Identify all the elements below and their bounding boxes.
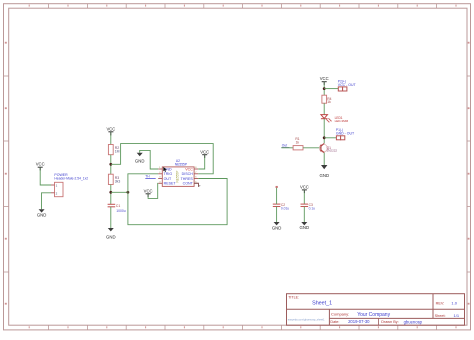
svg-text:VCC: VCC — [144, 188, 153, 193]
wire VCC to header pin 1 — [40, 167, 51, 185]
wire U2 GND pin to ground — [140, 150, 159, 169]
wire R4 to LED1 — [323, 103, 325, 114]
wire junction C to TRIG pin 2 — [128, 174, 158, 193]
power flag VCC (RESET) — [144, 188, 153, 193]
net label TH — [145, 175, 155, 179]
title block REV cell — [436, 300, 458, 305]
svg-text:Out: Out — [282, 144, 287, 148]
power flag VCC (C3) — [300, 185, 309, 190]
power flag VCC (555 timing chain) — [106, 127, 115, 132]
svg-text:VCC: VCC — [106, 127, 115, 132]
CONT pin 5 stub — [194, 183, 201, 187]
connector P2(+) VCC - OUT — [338, 80, 357, 92]
capacitor C2 0.01u — [273, 186, 290, 210]
node VCC/P2 junction — [323, 87, 326, 90]
svg-text:Header-Male-2.54_1x2: Header-Male-2.54_1x2 — [54, 176, 88, 180]
svg-text:gbuenosp: gbuenosp — [404, 319, 423, 324]
svg-text:VCC - OUT: VCC - OUT — [338, 83, 357, 87]
power flag stems dark tips — [40, 82, 324, 197]
wire VCC to R2 — [110, 132, 112, 145]
title block Date / Drawn By cell — [330, 319, 422, 324]
ground symbol (C3) — [300, 222, 310, 230]
wire VCC to junction — [323, 82, 325, 96]
svg-text:0.1u: 0.1u — [309, 207, 316, 211]
resistor R3 3k3 — [108, 174, 120, 184]
wire header pin 2 to GND — [42, 193, 52, 209]
svg-text:NE555P: NE555P — [175, 162, 188, 166]
svg-text:Sheet_1: Sheet_1 — [312, 300, 332, 306]
svg-text:GND: GND — [272, 226, 282, 231]
svg-text:Drawn By:: Drawn By: — [381, 320, 399, 324]
mouse cursor over U2 pin 1 — [163, 167, 167, 172]
svg-text:TRIG: TRIG — [164, 172, 173, 176]
svg-text:Your Company: Your Company — [357, 312, 390, 318]
svg-text:C1: C1 — [116, 204, 120, 208]
wire junction A to DISCH pin 7 — [111, 144, 213, 174]
wire VCC to U2 VCC pin 8 — [198, 155, 205, 169]
U2 right pins 8-5 VCC DISCH THRES CONT — [181, 167, 199, 185]
svg-text:RESET: RESET — [164, 182, 177, 186]
svg-text:VCC: VCC — [320, 76, 329, 81]
svg-text:GND: GND — [106, 234, 116, 239]
ground symbol (U2 GND pin) — [135, 153, 145, 164]
wire C1 to GND — [110, 207, 112, 228]
wire THRES pin 6 loop to junction C — [128, 179, 227, 225]
svg-text:1/1: 1/1 — [454, 313, 460, 318]
wire C2 pin to plates — [276, 188, 278, 204]
wire Out label to R1 — [281, 147, 293, 149]
svg-text:CONT: CONT — [183, 182, 194, 186]
title block Company cell — [331, 312, 391, 319]
svg-text:Date:: Date: — [330, 320, 339, 324]
svg-text:VCC: VCC — [185, 167, 193, 171]
svg-text:THRES: THRES — [181, 177, 194, 181]
wire VCC to C3 — [303, 190, 305, 204]
power flag VCC (net VCC, header) — [36, 162, 45, 168]
wire R3 to C1 — [110, 185, 112, 205]
svg-text:VCC: VCC — [200, 149, 209, 154]
connector POWER Header-Male-2.54_1x2 — [51, 173, 88, 197]
svg-text:3k3: 3k3 — [115, 180, 121, 184]
svg-text:0.01u: 0.01u — [281, 207, 289, 211]
transistor Q1 2N2222 — [319, 143, 337, 153]
U2 left pins 1-4 GND TRIG OUT RESET — [158, 167, 176, 185]
svg-text:OUT: OUT — [164, 177, 172, 181]
junction A (R2/R3 to DISCH) — [109, 163, 112, 166]
svg-text:Company:: Company: — [331, 312, 349, 317]
op-amp/timer U2 NE555P body — [162, 159, 194, 187]
svg-text:VCC: VCC — [300, 185, 309, 190]
wire C3 to GND — [303, 207, 305, 223]
wire VCC to RESET pin 4 — [148, 183, 158, 198]
capacitor C1 1000u — [108, 204, 126, 213]
svg-text:VCC: VCC — [36, 162, 45, 167]
svg-text:GND - OUT: GND - OUT — [336, 131, 355, 135]
title block Sheet cell — [435, 313, 460, 318]
connector P1(-) GND - OUT — [336, 128, 355, 140]
ground symbol (Q1 emitter) — [320, 165, 330, 178]
wire Q1 emitter to GND — [323, 153, 325, 165]
power flag VCC (LED branch) — [320, 76, 329, 82]
node collector/P1 junction — [323, 136, 326, 139]
ground symbol (C2) — [272, 222, 282, 231]
svg-text:Sheet:: Sheet: — [435, 314, 446, 318]
svg-text:TITLE:: TITLE: — [288, 296, 299, 300]
ground symbol (header) — [37, 209, 47, 217]
svg-text:1k: 1k — [327, 100, 331, 104]
resistor R2 1M — [108, 145, 119, 155]
svg-text:2019-07-30: 2019-07-30 — [348, 319, 370, 324]
svg-text:GND: GND — [320, 173, 330, 178]
wire C2 to GND — [276, 207, 278, 223]
svg-text:DISCH: DISCH — [182, 172, 194, 176]
title block TITLE text — [288, 296, 332, 307]
svg-text:GND: GND — [135, 158, 145, 163]
svg-text:1.0: 1.0 — [451, 300, 457, 305]
svg-text:2N2222: 2N2222 — [327, 149, 338, 153]
junction C (THRES/TRIG tie) — [127, 191, 130, 194]
svg-text:LED-3MM: LED-3MM — [335, 119, 349, 123]
svg-text:1M: 1M — [115, 150, 120, 154]
wire LED1 to collector node — [323, 119, 325, 144]
capacitor C3 0.1u — [301, 203, 316, 211]
svg-text:1k: 1k — [296, 140, 300, 144]
wire R1 to Q1 base — [303, 147, 320, 149]
svg-text:1000u: 1000u — [116, 209, 126, 213]
wire R2 to R3 — [110, 155, 112, 175]
resistor R4 1k — [322, 95, 332, 104]
svg-text:REV:: REV: — [436, 301, 445, 305]
resistor R1 1k — [293, 137, 303, 150]
ground symbol (C1) — [106, 228, 116, 239]
net label Out — [281, 144, 289, 148]
title block tiny url — [288, 317, 325, 321]
svg-text:GND: GND — [300, 225, 310, 230]
svg-text:easyeda.com/gbuenosp_sheet1: easyeda.com/gbuenosp_sheet1 — [288, 317, 325, 321]
LED LED1 LED-3MM — [321, 115, 349, 123]
wire junction to P2 — [324, 88, 338, 90]
wire junction B to junction C — [111, 191, 128, 193]
wire junction to P1 — [324, 137, 336, 139]
title block frame — [287, 294, 465, 326]
svg-text:GND: GND — [37, 213, 47, 218]
svg-text:NE555P: NE555P — [176, 171, 180, 183]
junction B (R3/C1) — [109, 191, 112, 194]
power flag VCC (U2 VCC pin) — [200, 149, 209, 154]
svg-text:TH: TH — [145, 175, 150, 179]
